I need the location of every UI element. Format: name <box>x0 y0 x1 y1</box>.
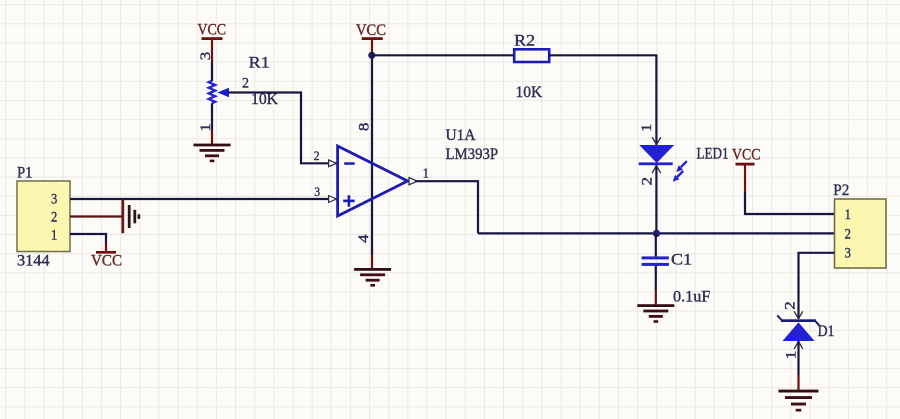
wire VCC rail down through op-amp <box>371 52 373 255</box>
svg-text:VCC: VCC <box>356 22 386 39</box>
wire P1 pin1 to VCC <box>70 234 106 243</box>
svg-text:1: 1 <box>845 207 851 223</box>
wire D1 to ground <box>797 341 799 375</box>
wire LED1 to bus junction <box>655 165 657 233</box>
power port VCC (op-amp rail) <box>356 22 386 52</box>
svg-text:3: 3 <box>198 52 214 61</box>
svg-text:2: 2 <box>845 226 851 242</box>
connector P2 <box>833 182 886 268</box>
svg-text:LED1: LED1 <box>697 146 729 163</box>
svg-text:3: 3 <box>51 192 57 208</box>
ground (below C1) <box>637 304 674 323</box>
svg-text:P1: P1 <box>17 164 33 181</box>
svg-text:10K: 10K <box>516 84 543 101</box>
op-amp U1A <box>314 123 498 243</box>
svg-text:P2: P2 <box>833 182 849 199</box>
svg-text:2: 2 <box>242 76 249 92</box>
power port VCC (P1 pin1) <box>91 243 122 270</box>
node junction (LED/C1/bus) <box>653 230 660 237</box>
wire C1 to ground <box>655 290 657 304</box>
svg-text:VCC: VCC <box>91 253 122 270</box>
svg-text:2: 2 <box>314 148 320 163</box>
power port VCC (P2 pin1) <box>732 147 761 193</box>
svg-text:8: 8 <box>357 123 373 131</box>
wire P1 pin2 to ground <box>70 215 122 217</box>
wire output bus to P2 pin2 <box>478 232 835 234</box>
svg-text:1: 1 <box>51 228 57 244</box>
svg-text:LM393P: LM393P <box>446 146 499 163</box>
svg-text:2: 2 <box>640 177 656 186</box>
ground (P1 pin2, rotated) <box>121 200 140 234</box>
wire P1 pin3 to op-amp pin 3 <box>70 198 337 200</box>
wire P2 pin3 to D1 <box>799 253 835 319</box>
svg-text:2: 2 <box>782 301 798 310</box>
resistor (potentiometer) R1 <box>198 52 279 144</box>
diode (zener) D1 <box>777 301 834 359</box>
svg-text:1: 1 <box>423 165 429 180</box>
wire R1 wiper to op-amp pin 2 <box>229 93 337 164</box>
resistor R2 <box>514 33 549 101</box>
power port VCC (above R1) <box>198 22 227 63</box>
svg-text:U1A: U1A <box>446 127 476 144</box>
ground (below D1) <box>779 390 819 412</box>
node junction (VCC rail) <box>368 52 375 59</box>
wire VCC to P2 pin1 <box>745 192 835 214</box>
svg-text:1: 1 <box>783 351 799 360</box>
svg-text:4: 4 <box>356 234 372 243</box>
svg-text:D1: D1 <box>818 323 835 340</box>
capacitor C1 <box>642 233 711 305</box>
svg-text:0.1uF: 0.1uF <box>673 289 710 306</box>
svg-text:R1: R1 <box>249 54 270 71</box>
wire VCC rail to R2 <box>372 54 514 56</box>
svg-text:C1: C1 <box>671 251 692 268</box>
connector P1 <box>17 164 70 269</box>
svg-text:2: 2 <box>51 210 57 226</box>
wire R2 to LED1 <box>549 55 656 145</box>
svg-text:3: 3 <box>845 246 851 262</box>
svg-text:1: 1 <box>639 123 655 132</box>
svg-text:VCC: VCC <box>198 22 227 39</box>
ground (below R1) <box>194 144 231 163</box>
svg-text:3: 3 <box>314 184 320 199</box>
svg-text:3144: 3144 <box>17 252 50 269</box>
wire op-amp output to bus <box>415 181 478 233</box>
ground (below op-amp) <box>354 268 391 287</box>
svg-text:VCC: VCC <box>732 147 761 164</box>
LED LED1 <box>639 123 729 185</box>
svg-text:R2: R2 <box>514 33 535 50</box>
